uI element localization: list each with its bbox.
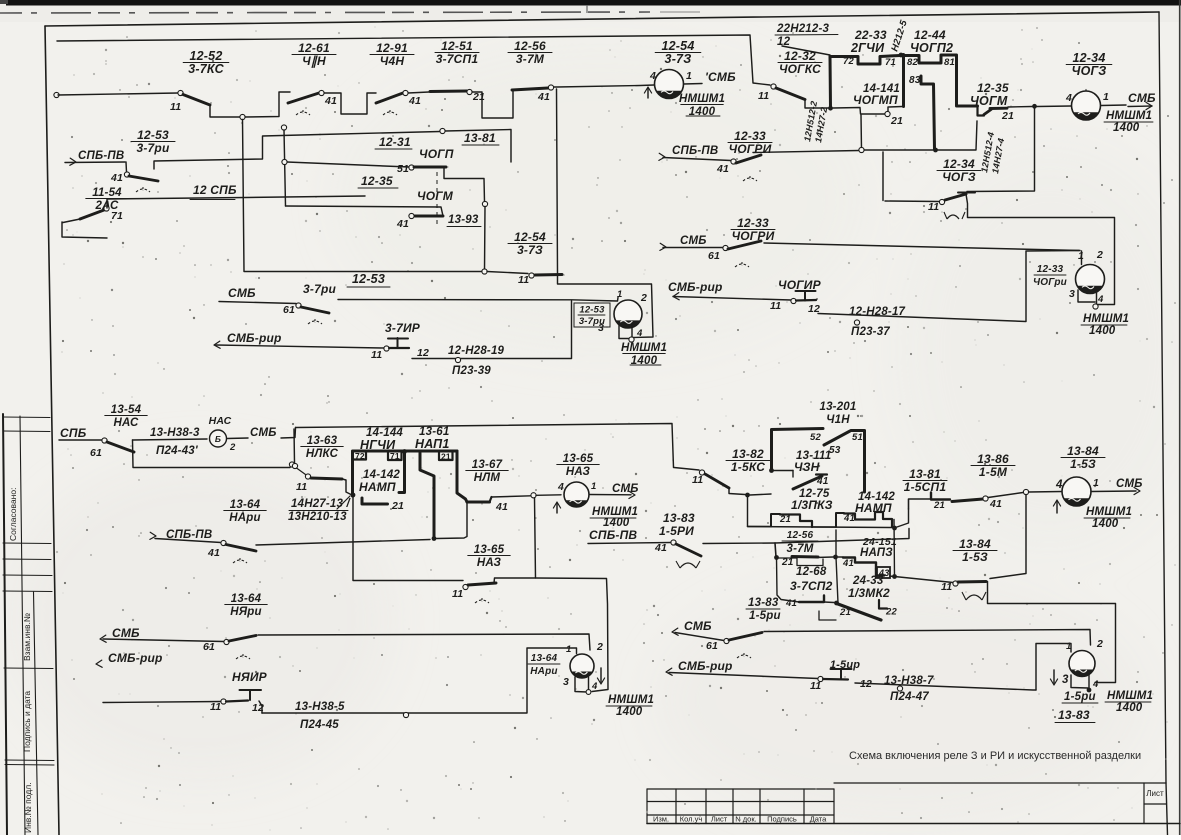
arrow up at 13-65 coil xyxy=(556,503,558,513)
svg-text:СПБ-ПВ: СПБ-ПВ xyxy=(589,528,637,542)
svg-text:НМШМ1: НМШМ1 xyxy=(1107,690,1153,702)
svg-text:3: 3 xyxy=(1062,674,1069,686)
svg-text:ЧОГЗ: ЧОГЗ xyxy=(942,170,976,184)
svg-text:3: 3 xyxy=(563,676,569,688)
wire 12-51 bay to 12-56 xyxy=(472,90,513,118)
contact 12-32 ЧОГКС pin 11 xyxy=(771,84,776,89)
svg-text:3-7З: 3-7З xyxy=(517,243,543,257)
title block Лист box xyxy=(1144,803,1166,805)
svg-text:22: 22 xyxy=(885,607,897,618)
svg-text:1-5М: 1-5М xyxy=(979,465,1008,479)
wire 12-54 contact to coil 12-53 pin4 loop xyxy=(558,275,654,338)
svg-text:НАМП: НАМП xyxy=(855,501,892,515)
wire СМБ-рир to НЯИР contact xyxy=(103,702,221,703)
wire СПБ-ПВ row to 3-7М contact xyxy=(703,542,775,545)
svg-text:12-56: 12-56 xyxy=(787,530,814,541)
svg-text:14Н27-13 /: 14Н27-13 / xyxy=(291,498,352,510)
svg-text:12-Н28-17: 12-Н28-17 xyxy=(849,306,906,318)
contact 13-111 ЧЗН pin 41 xyxy=(769,468,774,473)
svg-text:НЯИР: НЯИР xyxy=(232,670,268,684)
svg-text:13-65: 13-65 xyxy=(563,453,594,465)
svg-text:13-83: 13-83 xyxy=(1058,708,1090,722)
svg-text:1: 1 xyxy=(617,289,622,300)
tag СПБ-ПВ top-left xyxy=(70,158,76,165)
svg-text:Инв.№ подл.: Инв.№ подл. xyxy=(23,782,33,833)
svg-text:3-7ри: 3-7ри xyxy=(579,316,605,327)
relay coil 13-84 1-5З xyxy=(1062,477,1091,506)
svg-text:41: 41 xyxy=(408,95,421,107)
wire 12-56 to relay 12-54 coil xyxy=(554,85,654,87)
tag СПБ-ПВ bottom-left xyxy=(150,532,156,539)
svg-text:13-64: 13-64 xyxy=(230,499,261,511)
svg-text:П23-37: П23-37 xyxy=(851,326,890,338)
svg-text:3-7З: 3-7З xyxy=(665,52,692,66)
wire НАЗ row to right xyxy=(536,578,609,692)
svg-text:51: 51 xyxy=(852,432,863,443)
svg-text:3-7ИР: 3-7ИР xyxy=(385,321,421,335)
svg-text:72: 72 xyxy=(355,451,365,461)
svg-text:41: 41 xyxy=(537,91,550,103)
relay coil 13-64 НАРИ xyxy=(570,654,594,678)
svg-text:НМШМ1: НМШМ1 xyxy=(1086,506,1132,518)
svg-text:1/3ПКЗ: 1/3ПКЗ xyxy=(791,498,833,512)
svg-text:1-5ри: 1-5ри xyxy=(1064,691,1096,703)
svg-text:81: 81 xyxy=(944,57,955,68)
left strip col divider A xyxy=(20,416,25,835)
svg-text:ЧОГМ: ЧОГМ xyxy=(417,189,454,203)
node junction A xyxy=(240,114,245,119)
svg-text:21: 21 xyxy=(779,514,791,525)
svg-text:НАПЗ: НАПЗ xyxy=(860,547,893,559)
wire ЧОГЗ contact to coil 12-33 pin2 xyxy=(966,194,1115,305)
wire riser from coil node down xyxy=(535,498,536,578)
svg-text:2: 2 xyxy=(1096,638,1103,650)
wire ЧОГП row xyxy=(287,162,409,167)
svg-text:Ч∥Н: Ч∥Н xyxy=(302,54,326,68)
svg-text:1400: 1400 xyxy=(1089,325,1116,337)
svg-text:1: 1 xyxy=(1103,91,1109,103)
contact 12-34 ЧОГЗ pin 11 xyxy=(885,200,939,203)
svg-text:11: 11 xyxy=(758,90,769,102)
svg-text:1: 1 xyxy=(686,70,692,82)
svg-text:61: 61 xyxy=(283,304,295,316)
svg-text:ЧОГри: ЧОГри xyxy=(1033,277,1067,288)
svg-text:12-Н28-19: 12-Н28-19 xyxy=(448,345,505,357)
svg-text:СМБ: СМБ xyxy=(112,626,140,640)
svg-text:13-67: 13-67 xyxy=(472,459,503,471)
svg-text:71: 71 xyxy=(885,57,896,68)
svg-text:13-54: 13-54 xyxy=(111,404,142,416)
wire 12-Н28-17 row xyxy=(818,251,1079,322)
svg-text:1: 1 xyxy=(591,481,596,492)
wire node ЧОГМ down to ЧОГЗ contact row xyxy=(967,107,1035,192)
svg-text:12-34: 12-34 xyxy=(943,157,975,171)
contact 13-65 НАЗ pin 11 xyxy=(463,584,468,589)
svg-text:Ч1Н: Ч1Н xyxy=(826,414,850,426)
svg-text:НЛКС: НЛКС xyxy=(306,448,339,460)
wire coil 12-54 pin1 to СМБ tag xyxy=(684,83,703,86)
svg-text:83: 83 xyxy=(909,75,921,86)
wire СМБ to contact 61 xyxy=(219,302,296,304)
svg-text:13-81: 13-81 xyxy=(909,467,941,481)
contact block leg НАП1 down xyxy=(420,453,434,536)
contact 13-64 НЯри pin 61 xyxy=(103,639,224,642)
svg-text:ЧОГМП: ЧОГМП xyxy=(853,93,898,107)
svg-text:1-5З: 1-5З xyxy=(1070,457,1096,471)
contact block top bar xyxy=(353,451,458,496)
wire 12-61 to 12-91 bay xyxy=(324,93,376,114)
contact 13-83 pin 61 bottom xyxy=(675,633,724,641)
svg-text:12-52: 12-52 xyxy=(190,49,223,63)
svg-text:4: 4 xyxy=(1065,92,1072,104)
svg-text:12-32: 12-32 xyxy=(784,49,816,63)
contact 12-33 ЧОГРИ pin 41 xyxy=(663,158,731,161)
svg-text:12-33: 12-33 xyxy=(1037,264,1064,275)
svg-text:1-5З: 1-5З xyxy=(962,550,988,564)
svg-text:ЧОГП: ЧОГП xyxy=(419,147,454,161)
svg-text:13-Н38-3: 13-Н38-3 xyxy=(150,427,200,439)
wire riser НАПЗ node vertical xyxy=(836,530,838,603)
svg-text:12: 12 xyxy=(417,347,429,359)
bump 21 НАП1 xyxy=(439,452,453,460)
tag СМБ-рир bottom-left xyxy=(96,660,102,667)
release hook 3-7СП2 xyxy=(819,611,836,620)
svg-text:13-64: 13-64 xyxy=(231,593,262,605)
svg-text:11: 11 xyxy=(210,701,221,713)
page fold mark xyxy=(586,5,588,13)
svg-text:П24-45: П24-45 xyxy=(300,719,339,731)
svg-text:13-84: 13-84 xyxy=(959,537,991,551)
svg-text:3: 3 xyxy=(1069,288,1075,300)
svg-text:ЧОГКС: ЧОГКС xyxy=(779,62,821,76)
svg-text:13-83: 13-83 xyxy=(663,511,695,525)
svg-text:72: 72 xyxy=(843,56,854,67)
svg-text:НАП1: НАП1 xyxy=(415,437,450,451)
left strip col divider B xyxy=(34,592,39,835)
svg-text:11: 11 xyxy=(170,101,181,113)
svg-text:СМБ: СМБ xyxy=(228,286,256,300)
tag СМБ-рир right section xyxy=(673,293,679,300)
svg-text:12-34: 12-34 xyxy=(1073,51,1106,65)
svg-text:12-33: 12-33 xyxy=(737,216,769,230)
svg-text:НЛМ: НЛМ xyxy=(474,472,501,484)
svg-text:ЧЗН: ЧЗН xyxy=(794,460,820,474)
contact 14-142 НАМП pin 21 xyxy=(351,493,356,498)
svg-text:13-84: 13-84 xyxy=(1067,444,1099,458)
node between ЧОГП and ЧОГМ xyxy=(482,201,487,206)
svg-text:4: 4 xyxy=(1097,294,1104,305)
svg-text:НАЗ: НАЗ xyxy=(566,466,591,478)
svg-text:51: 51 xyxy=(397,163,409,175)
svg-text:13-201: 13-201 xyxy=(819,401,856,413)
contact block 2ГЧИ 72-71 castellation xyxy=(829,57,833,109)
svg-text:21: 21 xyxy=(933,500,945,511)
svg-text:12-53: 12-53 xyxy=(137,128,169,142)
svg-text:13-83: 13-83 xyxy=(748,597,779,609)
coil 12-53 pins 3-4 loop xyxy=(619,325,629,339)
contact 11-54 2АС pin 71 xyxy=(62,219,107,238)
svg-text:41: 41 xyxy=(716,163,729,175)
svg-text:СМБ: СМБ xyxy=(612,483,639,495)
svg-text:3-7М: 3-7М xyxy=(516,52,545,66)
svg-text:71: 71 xyxy=(390,451,400,461)
svg-text:ЧОГИР: ЧОГИР xyxy=(778,278,822,292)
arrow down at 13-83 coil xyxy=(1053,670,1055,683)
svg-text:13-86: 13-86 xyxy=(977,452,1009,466)
svg-text:Подпись: Подпись xyxy=(767,815,797,824)
svg-text:11: 11 xyxy=(296,481,307,493)
wire coil 13-83 pin1 riser xyxy=(1036,644,1071,691)
svg-text:СМБ: СМБ xyxy=(1116,478,1143,490)
contact 12-61 Ч2Н pin 41 xyxy=(288,93,319,103)
tag СМБ bottom-right xyxy=(672,628,678,635)
svg-text:41: 41 xyxy=(989,498,1002,510)
svg-text:13-81: 13-81 xyxy=(464,131,496,145)
contact block right leg xyxy=(457,451,467,502)
svg-text:11: 11 xyxy=(518,274,529,286)
contact 12-91 Ч4Н pin 41 xyxy=(376,93,403,103)
contact 13-64 НАРИ pin 41 xyxy=(155,539,221,543)
svg-text:3-7СП1: 3-7СП1 xyxy=(436,52,479,66)
contact 12-35 ЧОГМ pin 41 xyxy=(414,215,443,218)
svg-text:СМБ-рир: СМБ-рир xyxy=(227,331,282,345)
wire ЧОГП to ЧОГМ step xyxy=(444,167,485,202)
svg-text:П23-39: П23-39 xyxy=(452,365,491,377)
wire 12-53 contact fixed to net xyxy=(154,135,320,170)
svg-text:СПБ-ПВ: СПБ-ПВ xyxy=(78,150,124,162)
svg-text:13-93: 13-93 xyxy=(448,214,479,226)
svg-text:Кол.уч: Кол.уч xyxy=(680,815,703,824)
svg-text:11: 11 xyxy=(941,581,952,593)
wire coil 12-34 pin1 to СМБ xyxy=(1101,104,1126,107)
svg-text:12-35: 12-35 xyxy=(977,81,1009,95)
wire СПБ-ПВ row right xyxy=(256,540,430,546)
wire vertical x284 xyxy=(281,125,286,130)
top black scan bar xyxy=(6,0,1181,6)
contact 12-33 ЧОГРИ pin 61 xyxy=(663,247,723,249)
contact 1-3МК2 pins 21 22 xyxy=(824,601,834,604)
wire СМБ tag to top net riser xyxy=(281,428,296,439)
contact 12-53 3-7ри pin 41 xyxy=(125,162,128,172)
svg-text:12-51: 12-51 xyxy=(441,39,473,53)
indicator НАС xyxy=(210,430,227,447)
svg-text:11: 11 xyxy=(452,588,463,600)
svg-text:3-7КС: 3-7КС xyxy=(188,62,224,76)
svg-text:4: 4 xyxy=(1092,679,1099,690)
svg-text:21: 21 xyxy=(472,91,485,103)
svg-text:41: 41 xyxy=(654,542,667,554)
pointer slash 14Н27-13 xyxy=(337,496,350,509)
wire ring node to 13-84 contact feed xyxy=(990,495,1026,579)
svg-text:82: 82 xyxy=(907,57,918,68)
contact 13-67 НЛМ pin 41 xyxy=(467,501,490,504)
wire СПБ-ПВ net to block riser xyxy=(753,151,859,153)
svg-text:ЧОГП2: ЧОГП2 xyxy=(910,41,953,55)
svg-text:4: 4 xyxy=(1055,479,1063,491)
arrow up at 13-84 coil xyxy=(1056,501,1058,513)
arrow down at 13-64 coil xyxy=(600,668,602,682)
svg-text:4: 4 xyxy=(557,481,564,493)
relay coil 13-83 1-5ри xyxy=(1069,651,1095,677)
coil 13-83 pins 3-4 bottom xyxy=(1071,675,1088,688)
svg-text:СМБ: СМБ xyxy=(680,235,707,247)
svg-text:1: 1 xyxy=(1093,477,1099,489)
svg-text:13-Н38-5: 13-Н38-5 xyxy=(295,701,345,713)
svg-text:Дата: Дата xyxy=(810,815,827,824)
svg-text:21: 21 xyxy=(1001,110,1014,122)
svg-text:12-31: 12-31 xyxy=(379,135,411,149)
svg-text:НМШМ1: НМШМ1 xyxy=(1106,110,1152,122)
wire СПБ-ПВ row continues to 13-81 riser xyxy=(775,529,909,544)
svg-text:12-53: 12-53 xyxy=(352,272,385,286)
contact НАПЗ pin 41 xyxy=(816,556,833,559)
svg-text:4: 4 xyxy=(636,328,643,339)
svg-text:41: 41 xyxy=(324,95,337,107)
svg-text:1400: 1400 xyxy=(1092,518,1119,530)
relay coil 12-54 3-7З xyxy=(655,70,684,99)
svg-text:N док.: N док. xyxy=(735,815,756,824)
contact 12-75 pin 21 xyxy=(748,495,772,527)
wire top bus to 12-52 contact xyxy=(58,93,178,95)
wire net 12-31/13-81 row xyxy=(320,132,440,135)
svg-text:22Н212-3: 22Н212-3 xyxy=(776,23,830,35)
svg-text:11: 11 xyxy=(692,474,703,486)
mechanical link dashes ЧОГП-ЧОГМ xyxy=(436,172,438,226)
svg-text:1-5РИ: 1-5РИ xyxy=(659,524,694,538)
wire НАС row upper xyxy=(133,439,208,440)
svg-text:НМШМ1: НМШМ1 xyxy=(608,694,654,706)
svg-text:1400: 1400 xyxy=(1116,702,1143,714)
svg-text:НЯри: НЯри xyxy=(230,606,262,618)
wire 12-Н28-19 row xyxy=(412,301,572,359)
contact 12-52 3-7КС pin 11 xyxy=(178,90,183,95)
wire СМБ row to coil 12-53 pin1 xyxy=(338,300,617,302)
svg-text:Лист: Лист xyxy=(1146,789,1164,798)
svg-text:Согласовано:: Согласовано: xyxy=(8,488,18,541)
svg-text:1-5КС: 1-5КС xyxy=(731,460,765,474)
svg-text:41: 41 xyxy=(495,501,508,513)
contact block middle leg НГЧИ xyxy=(399,452,405,493)
svg-text:НАС: НАС xyxy=(209,415,232,427)
svg-text:'СМБ: 'СМБ xyxy=(705,70,736,84)
arrow up at 12-54 coil xyxy=(647,88,649,98)
tag СМБ-рир row xyxy=(214,341,220,348)
svg-text:12-56: 12-56 xyxy=(514,39,546,53)
svg-text:12-91: 12-91 xyxy=(376,41,408,55)
wire ЧОГМ to coil 12-34 xyxy=(1008,106,1032,109)
boxed label 12-53 3-7ри at coil xyxy=(574,303,610,327)
svg-text:Изм.: Изм. xyxy=(653,815,669,824)
contact block left leg to НАЗ row xyxy=(353,496,463,581)
broken scan line under top bar xyxy=(0,12,650,13)
contact 14-141 ЧОГМП pin 21 xyxy=(833,108,885,115)
svg-text:НАри: НАри xyxy=(229,512,260,524)
drawing frame xyxy=(45,12,1159,26)
wire junction A to 12-61 bay xyxy=(245,92,290,117)
svg-text:ЧОГЗ: ЧОГЗ xyxy=(1072,64,1107,78)
contact block ЧОГП2 82-81 castellation xyxy=(902,55,905,107)
svg-text:Лист: Лист xyxy=(711,815,728,824)
svg-text:13-82: 13-82 xyxy=(732,447,764,461)
svg-text:12-54: 12-54 xyxy=(514,230,546,244)
relay coil 13-65 НАЗ xyxy=(564,482,589,507)
contact 3-7ИР pin 11 xyxy=(384,346,389,351)
svg-text:2: 2 xyxy=(229,442,236,453)
wire 13-Н38-5 П24-45 row xyxy=(261,712,263,714)
wire 13-82 to ПКЗ net xyxy=(729,488,745,495)
svg-text:61: 61 xyxy=(203,641,215,653)
svg-text:НАри: НАри xyxy=(530,666,557,677)
svg-text:13Н210-13: 13Н210-13 xyxy=(288,511,347,523)
svg-text:Б: Б xyxy=(215,434,221,444)
svg-text:СМБ-рир: СМБ-рир xyxy=(678,659,733,673)
svg-text:11: 11 xyxy=(928,201,939,213)
svg-text:НМШМ1: НМШМ1 xyxy=(621,342,667,354)
svg-text:3-7М: 3-7М xyxy=(786,543,813,555)
svg-text:12-54: 12-54 xyxy=(662,39,695,53)
left strip row lines xyxy=(3,416,50,419)
wire ЧОГМ row xyxy=(286,206,444,216)
svg-text:13-65: 13-65 xyxy=(474,544,505,556)
svg-text:СМБ: СМБ xyxy=(1128,91,1156,105)
svg-text:3-7ри: 3-7ри xyxy=(136,141,169,155)
svg-text:41: 41 xyxy=(110,172,123,184)
svg-text:П24-43': П24-43' xyxy=(156,445,199,457)
wire 12-56 node down to 12-53 bus xyxy=(557,89,558,273)
relay coil 12-34 ЧОГЗ xyxy=(1072,91,1101,120)
svg-text:4: 4 xyxy=(591,681,598,692)
svg-text:Схема включения реле З и РИ и: Схема включения реле З и РИ и искусствен… xyxy=(849,750,1141,762)
wire net 22Н212-3 from inner frame corner xyxy=(57,35,770,85)
contact НАМП pin 41 xyxy=(812,526,836,528)
svg-text:12-68: 12-68 xyxy=(796,566,827,578)
coil 13-64 pins 3-4 bottom xyxy=(575,677,587,692)
wire НАЗ contact step xyxy=(494,578,535,583)
wire СПБ to contact 61 xyxy=(59,439,102,441)
contact 13-83 1-5РИ pin 41 xyxy=(588,543,671,544)
wire СМБ row to coil 13-83 pin2 xyxy=(764,630,1091,646)
svg-text:НАС: НАС xyxy=(114,417,139,429)
svg-text:1-5ри: 1-5ри xyxy=(749,610,781,622)
svg-text:3-7ри: 3-7ри xyxy=(303,282,336,296)
wire coil 13-64 pin1 from П24-45 net xyxy=(262,648,577,713)
svg-text:41: 41 xyxy=(396,218,409,230)
svg-text:61: 61 xyxy=(706,640,718,652)
wire coil 13-84 pin1 СМБ xyxy=(1091,490,1136,493)
svg-text:12-44: 12-44 xyxy=(914,28,946,42)
wire СМБ row to coil 12-33 pin1 xyxy=(764,243,1080,251)
svg-text:61: 61 xyxy=(708,250,720,262)
wire 13-84 contact to РИ coil feed xyxy=(986,582,1116,683)
wire to coil 13-84 xyxy=(988,493,1023,498)
svg-text:13-64: 13-64 xyxy=(531,653,558,664)
wire ЧОГП2 right leg down xyxy=(957,55,978,106)
wire riser to ЧОГЗ contact xyxy=(882,152,884,201)
svg-text:13-Н38-7: 13-Н38-7 xyxy=(884,675,934,687)
svg-text:СМБ-рир: СМБ-рир xyxy=(108,651,163,665)
wire НАМП row junction xyxy=(892,526,897,531)
node bus junction xyxy=(482,269,487,274)
svg-text:21: 21 xyxy=(890,115,903,127)
wire СМБ row to coil 13-64 pin2 xyxy=(258,634,590,650)
svg-text:2ГЧИ: 2ГЧИ xyxy=(850,41,885,55)
svg-text:1: 1 xyxy=(566,644,571,655)
contact 13-54 НАС pin 61 xyxy=(102,438,107,443)
tag СМБ-рир bottom-right xyxy=(666,668,672,675)
svg-text:12-53: 12-53 xyxy=(579,305,605,316)
svg-text:21: 21 xyxy=(441,452,451,462)
tag СПБ-ПВ right section xyxy=(659,153,665,160)
